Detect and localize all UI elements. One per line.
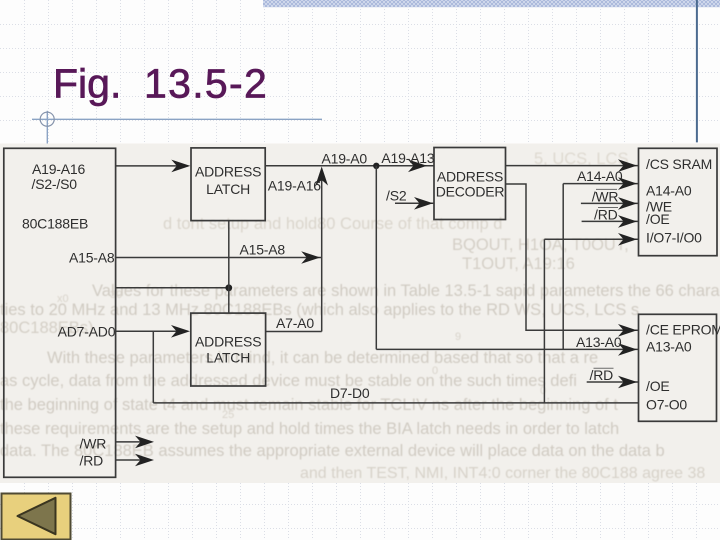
svg-text:d tont setup and hold80 Cou: d tont setup and hold80 Course of that c… (163, 215, 502, 233)
svg-text:A15-A8: A15-A8 (240, 241, 286, 257)
svg-text:D7-D0: D7-D0 (330, 385, 370, 401)
svg-text:/CE EPROM: /CE EPROM (646, 322, 720, 338)
title rule circle ornament (40, 112, 54, 126)
svg-text:0: 0 (432, 365, 438, 377)
svg-text:/S2-/S0: /S2-/S0 (32, 176, 78, 192)
svg-text:9: 9 (455, 331, 461, 343)
wire: decoder /CS output to SRAM (506, 159, 639, 172)
wire: /RD stub into EPROM /OE (587, 376, 639, 389)
wire: latch U2 output A19-A0 bus to decoder U4 (265, 160, 434, 173)
wire: U1 A19-A16//S2-/S0 to latch U2 (116, 160, 191, 173)
svg-text:the beginning of state t4 and: the beginning of state t4 and must remai… (0, 396, 618, 414)
svg-text:ADDRESS: ADDRESS (437, 168, 503, 184)
svg-text:x0: x0 (57, 293, 69, 305)
wire: A7-A0 riser joining bus (315, 167, 328, 332)
label /RD (EPROM) (590, 367, 614, 383)
svg-text:ADDRESS: ADDRESS (195, 333, 261, 349)
svg-text:A15-A8: A15-A8 (69, 249, 115, 265)
svg-text:25: 25 (222, 409, 234, 421)
svg-text:T1OUT, A19:16: T1OUT, A19:16 (462, 255, 575, 273)
svg-text:A7-A0: A7-A0 (276, 315, 314, 331)
wire: A13-A0 run into EPROM (376, 343, 638, 356)
address latch U2 (upper) (191, 148, 265, 221)
svg-text:A14-A0: A14-A0 (577, 168, 623, 184)
svg-text:/WR: /WR (80, 435, 107, 451)
wire: data bus riser to SRAM (543, 239, 545, 403)
svg-text:ADDRESS: ADDRESS (195, 163, 261, 179)
svg-text:/CS SRAM: /CS SRAM (646, 156, 712, 172)
wire: latch U3 output A7-A0 (266, 331, 322, 333)
svg-text:as cycle, data from the addres: as cycle, data from the addressed device… (0, 372, 577, 390)
svg-text:DECODER: DECODER (436, 184, 505, 200)
wire: U1 /RD stub (116, 454, 154, 467)
EPROM U6 (639, 314, 720, 421)
title underline rule (32, 118, 322, 120)
svg-text:I/O7-I/O0: I/O7-I/O0 (646, 230, 702, 246)
wire: /WR stub into SRAM /WE (581, 197, 639, 210)
wire: A14-A0 into SRAM (563, 177, 638, 190)
scanned figure background (0, 144, 720, 484)
wire: U1 /WR stub (116, 436, 154, 449)
navigation back button (2, 494, 71, 540)
svg-text:/OE: /OE (646, 211, 670, 227)
svg-text:/RD: /RD (594, 206, 618, 222)
svg-text:ties to 20 MHz and 13 MHz 80C: ties to 20 MHz and 13 MHz 80C188EBs (whi… (0, 301, 639, 319)
svg-text:A19-A13: A19-A13 (381, 150, 434, 166)
title rule vertical tick (46, 111, 48, 144)
wire: ALE from U1 to latches (116, 287, 229, 289)
svg-text:A19-A16: A19-A16 (268, 178, 321, 194)
svg-text:and then TEST, NMI, INT4:0: and then TEST, NMI, INT4:0 corner the 80… (300, 465, 705, 482)
svg-text:/WR: /WR (592, 188, 619, 204)
wire: data bus D7-D0 to EPROM O7-O0 (153, 402, 638, 404)
svg-text:A13-A0: A13-A0 (576, 334, 622, 350)
svg-text:LATCH: LATCH (206, 181, 250, 197)
label /WR (SRAM) (592, 188, 619, 204)
svg-text:/OE: /OE (646, 378, 670, 394)
svg-text:A19-A16: A19-A16 (32, 161, 85, 177)
svg-text:With these parameters in mind: With these parameters in mind, it can be… (47, 349, 598, 367)
address latch U3 (lower) (191, 313, 266, 386)
svg-text:Values for these parameters ar: Values for these parameters are shown in… (92, 282, 720, 300)
svg-text:Fig.: Fig. (53, 61, 121, 107)
svg-text:O7-O0: O7-O0 (646, 397, 687, 413)
svg-text:0: 0 (540, 385, 546, 397)
wire: bus drop from junction to A13-A0 run (375, 166, 377, 350)
wire: decoder /CE output to EPROM (506, 184, 639, 337)
label /RD (SRAM) (594, 206, 618, 222)
svg-text:A19-A0: A19-A0 (322, 151, 368, 167)
wire: latch enable link U2-U3 (228, 221, 230, 314)
svg-text:AD7-AD0: AD7-AD0 (58, 323, 116, 339)
svg-text:A13-A0: A13-A0 (646, 338, 692, 354)
wire: AD7-AD0 drop to data bus (152, 331, 154, 403)
top hatched band (263, 0, 720, 7)
wire: data into SRAM I/O7-I/O0 (544, 233, 638, 246)
node: ALE junction (225, 284, 232, 291)
svg-text:13.5-2: 13.5-2 (144, 61, 268, 107)
microprocessor U1 80C188EB (4, 148, 116, 477)
node: junction on A19-A0 bus (373, 163, 379, 169)
address decoder U4 (434, 148, 506, 220)
right vertical rule (696, 0, 698, 142)
wire: /RD stub into SRAM /OE (582, 215, 639, 228)
SRAM U5 (639, 148, 718, 255)
svg-text:A14-A0: A14-A0 (646, 182, 692, 198)
slide title "Fig. 13.5-2" (53, 61, 268, 107)
wire: A14-A0 trunk riser (562, 184, 564, 350)
svg-text:80C188EB: 80C188EB (22, 215, 88, 231)
wire: /S2 stub to decoder (395, 197, 434, 210)
svg-text:/RD: /RD (590, 367, 614, 383)
svg-text:/S2: /S2 (386, 187, 407, 203)
svg-text:/RD: /RD (80, 453, 104, 469)
svg-text:LATCH: LATCH (206, 349, 250, 365)
wire: U1 A15-A8 to riser (116, 251, 322, 264)
wire: U1 AD7-AD0 to latch U3 (116, 325, 190, 338)
